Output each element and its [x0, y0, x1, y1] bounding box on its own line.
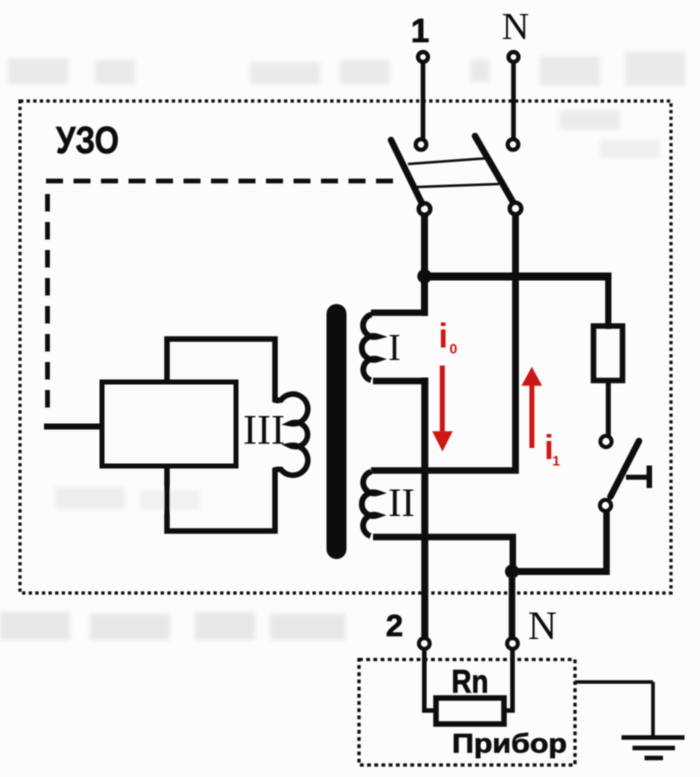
winding II coil [362, 472, 378, 536]
terminal 2 circle [419, 638, 430, 649]
test button actuator bar [647, 466, 653, 489]
node A junction dot [417, 269, 431, 283]
relay box [102, 382, 236, 466]
svg-text:1: 1 [552, 452, 560, 468]
wire: terminal N into device [504, 650, 513, 711]
wire: test branch left to node B [510, 568, 604, 575]
wire: terminal 1 down to breaker [421, 64, 426, 140]
breaker pole N bottom contact circle [510, 203, 522, 215]
svg-text:2: 2 [386, 608, 403, 643]
wire: winding I to terminal 2 (main left line) [421, 378, 428, 639]
svg-text:i: i [439, 318, 448, 356]
trip linkage dashed vertical [45, 194, 50, 410]
faint watermark band top [8, 52, 685, 158]
wire: node B down to terminal N bottom [509, 572, 516, 639]
winding III loop upper [167, 339, 275, 402]
svg-text:I: I [388, 327, 401, 369]
test button lower contact circle [600, 500, 611, 511]
test button upper contact circle [600, 436, 611, 447]
faint watermark band bottom-left [0, 487, 345, 640]
terminal N top circle [509, 52, 519, 62]
breaker pole 1 top contact circle [416, 139, 427, 150]
wire: pole N down to winding II top [512, 214, 519, 474]
red current arrow i1 label [544, 429, 560, 468]
svg-text:N: N [528, 603, 557, 648]
resistor Rn [436, 698, 504, 724]
red current arrow i0 [432, 366, 453, 452]
svg-text:1: 1 [411, 12, 429, 49]
wire: pole 1 to node A [421, 215, 428, 279]
winding I coil [362, 315, 378, 381]
wire: test button down [603, 511, 610, 576]
winding I top wire [371, 310, 428, 316]
breaker pole 1 blade [391, 140, 422, 204]
wire: resistor to test button [606, 381, 611, 437]
ground symbol [622, 738, 685, 759]
ground wire horizontal [575, 680, 653, 684]
svg-text:0: 0 [450, 340, 458, 356]
svg-text:Rn: Rn [452, 664, 489, 700]
wire: node A right to test resistor branch [421, 273, 612, 281]
red current arrow i1 [522, 367, 543, 448]
svg-text:III: III [243, 408, 285, 454]
red current arrow i0 label [439, 318, 458, 357]
winding III coil [276, 394, 308, 475]
svg-text:N: N [502, 6, 529, 48]
Прибор dotted box [359, 660, 575, 766]
resistor R (test) [594, 326, 623, 381]
test button actuator stub [626, 475, 648, 480]
winding II top wire [371, 467, 519, 474]
node B junction dot [505, 565, 519, 579]
wire: terminal 2 into device [424, 650, 435, 711]
relay lead wire [44, 424, 103, 430]
breaker pole N blade [475, 136, 513, 202]
transformer core bar [327, 304, 347, 559]
wire: terminal N down to breaker [511, 64, 516, 140]
breaker mechanical link top bar [408, 158, 490, 164]
winding II bottom wire [373, 534, 516, 541]
svg-text:Прибор: Прибор [452, 729, 567, 759]
terminal N bottom circle [507, 638, 518, 649]
winding I bottom wire [373, 378, 428, 385]
ground wire vertical [651, 682, 655, 737]
test button blade [611, 441, 640, 497]
wire: winding II return down to node B [510, 534, 517, 571]
wire: node A down to winding I [421, 276, 428, 316]
terminal 1 circle [418, 52, 428, 62]
trip linkage dashed horizontal [46, 179, 403, 184]
breaker pole N top contact circle [508, 139, 519, 150]
breaker pole 1 bottom contact circle [419, 203, 431, 215]
УЗО enclosure dotted box [20, 101, 671, 593]
svg-text:II: II [388, 480, 415, 525]
svg-text:УЗО: УЗО [56, 120, 119, 162]
wire: down to test resistor [605, 273, 611, 329]
breaker mechanical link bottom bar [417, 184, 499, 187]
winding III loop lower [167, 465, 275, 531]
